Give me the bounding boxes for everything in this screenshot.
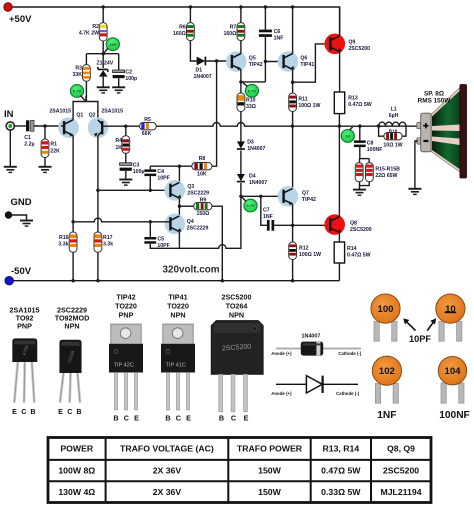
junction rail R9 — [221, 279, 224, 282]
svg-text:1N4007: 1N4007 — [194, 74, 212, 80]
junction Q3 emitter R9 — [178, 205, 181, 208]
svg-text:0.47Ω 5W: 0.47Ω 5W — [348, 102, 372, 108]
wire speaker minus to ground — [415, 141, 418, 189]
resistor R10 — [237, 93, 245, 112]
svg-text:104: 104 — [444, 366, 461, 377]
resistor R4 — [122, 136, 130, 154]
wire R6 top — [189, 7, 191, 23]
resistor R15B — [366, 163, 374, 182]
svg-text:C: C — [176, 414, 181, 423]
svg-text:TIP 41C: TIP 41C — [166, 362, 186, 368]
wire C2 top — [118, 54, 120, 70]
svg-text:1N4007: 1N4007 — [247, 146, 265, 152]
wire R9 right down — [212, 206, 222, 281]
svg-text:R11: R11 — [298, 97, 307, 103]
wire Q9 base route — [293, 44, 331, 82]
svg-text:R9: R9 — [200, 198, 207, 204]
node 0.7V diff pair — [70, 85, 83, 98]
svg-text:2SC5200: 2SC5200 — [383, 466, 419, 476]
svg-text:100NF: 100NF — [439, 410, 470, 421]
table spec grid — [48, 438, 431, 503]
svg-text:0.47Ω 5W: 0.47Ω 5W — [347, 253, 371, 259]
svg-text:0.7V: 0.7V — [246, 203, 254, 208]
svg-text:6µH: 6µH — [389, 113, 399, 119]
svg-text:Q8, Q9: Q8, Q9 — [387, 444, 415, 454]
svg-text:10PF: 10PF — [157, 175, 169, 181]
wire Q3 collector — [178, 166, 180, 184]
junction rail C6 — [264, 5, 267, 8]
svg-text:2SA1015: 2SA1015 — [101, 109, 123, 115]
svg-text:C7: C7 — [263, 208, 270, 214]
svg-text:E: E — [58, 407, 63, 416]
svg-text:R12: R12 — [299, 246, 309, 252]
svg-text:100W 8Ω: 100W 8Ω — [58, 466, 95, 476]
wire D1 to Q5 base — [206, 60, 232, 62]
svg-text:TO220: TO220 — [115, 302, 137, 311]
speaker SP 8ohm — [417, 85, 467, 179]
capacitor C1 — [26, 120, 34, 131]
svg-text:R13: R13 — [348, 96, 358, 102]
wire C6 bottom — [264, 37, 266, 82]
svg-text:Q4: Q4 — [187, 219, 194, 225]
resistor R7 — [237, 23, 245, 41]
svg-text:C1: C1 — [24, 135, 31, 141]
svg-text:R17: R17 — [103, 235, 113, 241]
svg-text:IN: IN — [4, 109, 14, 120]
wire C2 bottom — [118, 78, 120, 87]
junction rail R7 — [239, 5, 242, 8]
svg-text:1NF: 1NF — [274, 36, 284, 42]
resistor R11 — [289, 93, 297, 112]
svg-text:33Ω: 33Ω — [246, 104, 256, 110]
svg-text:100Ω 1W: 100Ω 1W — [299, 252, 321, 258]
svg-text:24V: 24V — [109, 42, 116, 47]
wire emitter bracket — [73, 102, 98, 120]
wire Q4 emitter — [178, 232, 180, 249]
svg-text:150W: 150W — [258, 487, 281, 497]
junction top rail R2 — [102, 5, 105, 8]
junction Q2 coll tap — [96, 189, 99, 192]
wire Q4 base wire — [73, 218, 170, 222]
capacitor C3 — [120, 163, 132, 171]
svg-text:B: B — [30, 407, 35, 416]
svg-text:0.33Ω 5W: 0.33Ω 5W — [321, 487, 361, 497]
capacitor C5 — [144, 237, 156, 244]
svg-text:Cathode (-): Cathode (-) — [338, 351, 362, 356]
transistor package TIP42 TO220 — [109, 324, 143, 410]
wire R6 to D1 — [190, 41, 196, 61]
junction Q7 emitter C7 — [291, 224, 294, 227]
zener Z1 wire top — [102, 54, 104, 68]
wire R9 left — [179, 205, 193, 207]
junction C7 tap — [259, 195, 262, 198]
node input jack — [6, 122, 14, 130]
svg-text:E: E — [186, 414, 191, 423]
svg-text:C8: C8 — [367, 140, 374, 146]
resistor R17 — [94, 232, 102, 252]
svg-text:R15-R15B: R15-R15B — [375, 167, 400, 173]
wire Q2 base to R4 node — [102, 125, 139, 127]
transistor Q4 — [165, 214, 186, 235]
wire C8 to R15 pair — [359, 147, 361, 159]
junction rail C8 — [358, 124, 361, 127]
svg-text:MJL21194: MJL21194 — [380, 487, 421, 497]
wire GND stub — [9, 215, 27, 220]
svg-text:POWER: POWER — [60, 444, 94, 454]
capacitor disc 10 — [436, 294, 465, 341]
wire R2 top — [102, 7, 104, 23]
wire C5 top — [149, 222, 151, 237]
ground under C2 — [112, 87, 125, 93]
resistor R13 — [334, 92, 344, 114]
svg-text:100: 100 — [377, 304, 393, 315]
svg-text:R5: R5 — [144, 117, 151, 123]
junction rail L1 — [377, 124, 380, 127]
capacitor disc 102 — [372, 356, 401, 403]
svg-text:2SC5200: 2SC5200 — [350, 227, 372, 233]
transistor Q2 — [88, 117, 109, 138]
transistor Q3 — [165, 180, 186, 201]
svg-text:D1: D1 — [196, 68, 203, 74]
wire R2 bottom to zener node — [102, 41, 104, 54]
svg-text:SP. 8Ω: SP. 8Ω — [424, 91, 444, 98]
capacitor C7 — [267, 220, 274, 231]
wire C3 bottom — [125, 171, 127, 179]
svg-text:L1: L1 — [391, 107, 397, 113]
svg-text:2.2µ: 2.2µ — [24, 141, 34, 147]
capacitor disc 104 — [438, 357, 466, 404]
svg-text:-50V: -50V — [11, 266, 32, 277]
ground under speaker — [408, 189, 421, 195]
wire R12 bottom — [292, 260, 294, 281]
capacitor C4 — [144, 169, 156, 176]
wire Q5 collector node — [241, 69, 266, 82]
svg-text:TO264: TO264 — [226, 302, 248, 311]
diode D3 — [237, 141, 245, 149]
transistor package 2SA1015 TO92 — [12, 338, 37, 402]
wire Q3 emitter node — [178, 198, 180, 217]
svg-text:100Ω 1W: 100Ω 1W — [298, 103, 320, 109]
wire Q5 emitter to R7 — [240, 41, 242, 54]
svg-text:0V: 0V — [345, 134, 350, 139]
wire Q8 emitter to R14 — [338, 233, 340, 243]
svg-text:100µ: 100µ — [133, 169, 145, 175]
transistor Q7 — [278, 186, 299, 207]
junction rail R6 — [189, 5, 192, 8]
diode 1N4007 photo — [276, 342, 361, 356]
junction R4 top — [124, 125, 127, 128]
svg-text:4.7K 2W: 4.7K 2W — [79, 31, 99, 37]
transistor package TIP41 TO220 — [161, 324, 195, 410]
svg-text:B: B — [165, 414, 170, 423]
svg-text:2SC5200: 2SC5200 — [348, 46, 370, 52]
resistor R2 — [99, 23, 107, 41]
junction C5 tap — [149, 220, 152, 223]
junction zener node — [102, 52, 105, 55]
wire C4 bottom — [149, 176, 151, 190]
wire R8 tap vertical — [212, 61, 217, 166]
svg-text:10K: 10K — [197, 171, 207, 177]
svg-text:Q9: Q9 — [348, 40, 355, 46]
svg-text:2SC2229: 2SC2229 — [187, 226, 209, 232]
svg-text:10: 10 — [445, 304, 456, 315]
svg-text:TIP41: TIP41 — [168, 293, 187, 302]
diode D4 — [237, 174, 245, 182]
node GND terminal — [5, 211, 12, 218]
wire C1 to Q1 base — [34, 125, 61, 127]
arrow 10PF to 10 — [427, 322, 433, 331]
svg-text:R2: R2 — [92, 24, 99, 30]
svg-text:NPN: NPN — [170, 311, 185, 320]
svg-text:1NF: 1NF — [263, 214, 273, 220]
ground GND symbol — [20, 221, 33, 227]
resistor R16 — [69, 232, 77, 252]
transistor Q1 — [58, 117, 79, 138]
svg-text:10PF: 10PF — [409, 334, 431, 344]
svg-text:1K: 1K — [115, 145, 122, 151]
wire R1 top — [44, 126, 46, 139]
transistor Q5 — [226, 51, 247, 72]
wire Q1 base — [61, 125, 64, 127]
svg-text:R13, R14: R13, R14 — [322, 444, 359, 454]
diode symbol — [276, 376, 358, 393]
svg-text:22K: 22K — [50, 148, 60, 154]
transistor Q9 — [325, 34, 346, 55]
svg-text:TIP41: TIP41 — [300, 62, 314, 68]
arrow 10PF to 100 — [406, 322, 415, 331]
svg-text:NPN: NPN — [64, 322, 79, 331]
svg-text:1NF: 1NF — [377, 410, 396, 421]
svg-text:1N4007: 1N4007 — [302, 334, 321, 340]
svg-text:320volt.com: 320volt.com — [163, 265, 220, 276]
wire C8 top — [359, 126, 361, 140]
wire C7 to Q8 base — [274, 224, 330, 226]
wire R1 bottom — [44, 158, 46, 167]
transistor Q8 — [324, 214, 345, 235]
svg-text:R14: R14 — [347, 246, 357, 252]
svg-text:150W: 150W — [258, 466, 281, 476]
svg-text:D3: D3 — [247, 140, 254, 146]
svg-text:33K: 33K — [72, 72, 82, 78]
svg-text:B: B — [76, 407, 81, 416]
node 0.7V Q5 — [245, 84, 258, 97]
svg-text:PNP: PNP — [119, 311, 134, 320]
wire C5 bottom route — [150, 244, 179, 249]
svg-text:B: B — [113, 414, 118, 423]
junction rail R12 — [291, 279, 294, 282]
svg-text:TRAFO VOLTAGE (AC): TRAFO VOLTAGE (AC) — [120, 444, 214, 454]
svg-text:Q8: Q8 — [350, 221, 357, 227]
svg-text:R1: R1 — [50, 142, 57, 148]
svg-text:66K: 66K — [142, 131, 152, 137]
svg-text:R3: R3 — [75, 66, 82, 72]
svg-text:Q7: Q7 — [302, 191, 309, 197]
svg-text:0.7V: 0.7V — [73, 89, 81, 94]
wire R15 bottoms — [360, 182, 370, 186]
svg-text:2X 36V: 2X 36V — [153, 487, 182, 497]
wire Q3 base wire — [98, 189, 170, 191]
diode D1 — [197, 57, 206, 66]
wire Q9 collector — [339, 7, 341, 36]
svg-text:E: E — [12, 407, 17, 416]
ground under C3 — [119, 180, 132, 186]
svg-text:Cathode (-): Cathode (-) — [336, 391, 360, 396]
ground under Z1 — [97, 87, 110, 93]
svg-text:160Ω: 160Ω — [173, 31, 186, 37]
svg-text:R4: R4 — [115, 138, 122, 144]
wire Q7 emitter down — [292, 204, 294, 242]
wire Q8 collector to rail — [338, 126, 340, 217]
capacitor C2 — [113, 70, 125, 78]
svg-text:102: 102 — [379, 366, 395, 377]
resistor R9 — [194, 203, 212, 210]
node 0.7V Q7 — [244, 199, 257, 212]
svg-text:GND: GND — [11, 197, 32, 208]
svg-text:C6: C6 — [274, 29, 281, 35]
svg-text:R10: R10 — [246, 98, 256, 104]
wire -50V bottom rail — [9, 280, 339, 282]
svg-text:TRAFO POWER: TRAFO POWER — [237, 444, 303, 454]
wire Q2 collector down — [97, 136, 99, 232]
transistor package 2SC5200 TO264 — [211, 321, 263, 412]
svg-text:C: C — [21, 407, 26, 416]
svg-text:10Ω 1W: 10Ω 1W — [383, 143, 402, 149]
node -50V terminal — [5, 277, 13, 285]
svg-text:C: C — [124, 414, 129, 423]
wire Q6 emitter node — [292, 69, 294, 93]
transistor Q6 — [278, 51, 299, 72]
junction D1 R8 tap — [215, 59, 218, 62]
wire R11 bottom to rail to Q7 — [292, 112, 294, 188]
svg-text:100NF: 100NF — [367, 147, 383, 153]
svg-text:+50V: +50V — [9, 14, 32, 25]
junction Q1 coll bias tap — [71, 220, 74, 223]
wire C6 top — [264, 7, 266, 30]
junction R1 top — [43, 124, 46, 127]
zener Z1 — [98, 67, 108, 87]
inductor L1 — [379, 122, 406, 126]
wire R14 bottom — [338, 263, 340, 281]
svg-text:1N4007: 1N4007 — [249, 180, 267, 186]
wire R16 bottom — [72, 252, 74, 280]
svg-text:TIP42: TIP42 — [249, 62, 263, 68]
resistor R1 — [41, 139, 49, 158]
svg-text:C5: C5 — [157, 237, 164, 243]
svg-text:NPN: NPN — [229, 311, 244, 320]
resistor R5 — [140, 123, 157, 130]
svg-text:D4: D4 — [249, 174, 256, 180]
resistor R6 — [187, 23, 195, 41]
wire R7 top — [240, 7, 242, 23]
wire +50V top rail — [8, 7, 340, 36]
transistor package 2SC2229 TO92MOD — [59, 340, 81, 403]
capacitor disc 100 — [371, 294, 400, 341]
wire Q6 collector to rail — [292, 7, 294, 54]
svg-text:22Ω 65W: 22Ω 65W — [375, 173, 397, 179]
wire input to C1 — [14, 125, 26, 127]
junction rail R16 — [71, 279, 74, 282]
svg-text:100p: 100p — [125, 76, 137, 82]
node 24V — [106, 38, 119, 51]
svg-text:Anode (+): Anode (+) — [271, 391, 292, 396]
svg-text:2SA1015: 2SA1015 — [49, 109, 71, 115]
wire C7 branch — [261, 196, 267, 225]
node +50V terminal — [4, 3, 12, 11]
junction C4 bottom tap — [149, 189, 152, 192]
svg-text:Q5: Q5 — [249, 56, 256, 62]
junction Q3 collector tap — [178, 165, 181, 168]
wire Q6 base — [265, 61, 283, 63]
svg-text:C: C — [67, 407, 72, 416]
junction rail Q6 — [291, 5, 294, 8]
junction Q6 emitter — [291, 81, 294, 84]
wire R4 top — [125, 126, 127, 136]
svg-text:Q3: Q3 — [187, 184, 194, 190]
svg-text:Z1 24V: Z1 24V — [97, 61, 114, 67]
resistor R14 — [334, 242, 344, 263]
resistor R3 — [83, 65, 91, 82]
svg-text:3.3k: 3.3k — [103, 242, 113, 248]
junction rail R11 — [291, 124, 294, 127]
wire output rail — [156, 122, 421, 126]
resistor R18 — [384, 133, 402, 140]
svg-text:2X 36V: 2X 36V — [153, 466, 182, 476]
svg-text:C: C — [231, 414, 236, 423]
junction D4 bottom — [239, 195, 242, 198]
wire R13 bottom — [338, 114, 340, 127]
wire R17 bottom — [97, 252, 99, 280]
ground under R1 — [39, 167, 52, 173]
svg-text:R16: R16 — [59, 235, 69, 241]
wire R18 branch — [379, 126, 384, 136]
capacitor C8 — [354, 140, 366, 147]
svg-text:R7: R7 — [230, 24, 237, 30]
wire R10 to D3 — [240, 112, 242, 142]
svg-text:E: E — [134, 414, 139, 423]
svg-text:150Ω: 150Ω — [196, 211, 209, 217]
svg-text:E: E — [244, 414, 249, 423]
junction Q5 collector — [239, 80, 242, 83]
svg-text:TIP42: TIP42 — [116, 293, 135, 302]
wire R4 to C3 — [125, 153, 127, 163]
junction rail R13 — [338, 124, 341, 127]
svg-text:TO220: TO220 — [167, 302, 189, 311]
svg-text:R8: R8 — [199, 156, 206, 162]
svg-text:RMS 150W: RMS 150W — [418, 98, 452, 105]
svg-text:130W 4Ω: 130W 4Ω — [58, 487, 95, 497]
svg-text:B: B — [219, 414, 224, 423]
svg-text:TIP42: TIP42 — [302, 197, 316, 203]
svg-text:Q1: Q1 — [76, 113, 83, 119]
wire Q9 emitter to R13 — [339, 52, 341, 92]
resistor R12 — [289, 242, 297, 260]
ground under R15 — [353, 190, 366, 196]
wire C4 top bend — [149, 166, 151, 169]
svg-text:Anode (+): Anode (+) — [271, 351, 292, 356]
ground under input — [4, 167, 17, 173]
svg-text:0.47Ω 5W: 0.47Ω 5W — [321, 466, 361, 476]
svg-text:Q2: Q2 — [89, 113, 96, 119]
svg-text:2SC2229: 2SC2229 — [187, 191, 209, 197]
wire R8 left wire — [150, 165, 192, 167]
resistor R8 — [192, 163, 212, 170]
svg-text:PNP: PNP — [17, 322, 32, 331]
svg-text:R6: R6 — [179, 24, 186, 30]
node 0V — [341, 130, 354, 143]
junction Q6 base tap — [264, 60, 267, 63]
wire D4 to Q7 base node — [240, 183, 242, 196]
wire R3 top — [85, 54, 87, 65]
